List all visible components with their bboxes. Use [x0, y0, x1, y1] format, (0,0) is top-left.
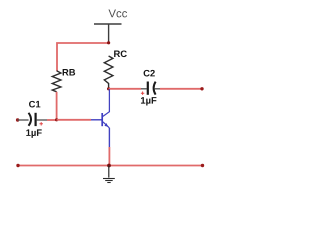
polarity mark + C2: [141, 92, 144, 95]
node output terminal: [200, 87, 203, 90]
wire base node to transistor: [57, 119, 91, 121]
wire RB bottom to base node: [56, 92, 58, 120]
wire ground rail: [18, 165, 203, 167]
net label Vcc: [108, 9, 127, 17]
wire Vcc node to RB top: [57, 43, 109, 71]
resistor RB: [52, 71, 61, 92]
capacitor C2: [141, 82, 160, 95]
resistor RC: [104, 56, 113, 89]
wire Vcc stem: [108, 24, 110, 43]
transistor Q1: [91, 89, 109, 147]
node rail left terminal: [16, 164, 19, 167]
wire collector node to C2: [109, 88, 141, 90]
wire emitter to ground rail: [108, 147, 110, 166]
node emitter junction: [107, 164, 111, 168]
capacitor C1: [18, 113, 47, 126]
node Vcc junction: [107, 41, 110, 44]
ground: [103, 166, 115, 183]
power symbol Vcc bar: [94, 23, 122, 25]
node input terminal: [16, 118, 19, 121]
wire C1 to base node: [47, 119, 57, 121]
node collector junction: [107, 87, 110, 90]
label C2: [144, 70, 155, 77]
label RB: [63, 69, 76, 75]
value label 1uF C2: [141, 97, 156, 105]
node base junction: [55, 118, 58, 121]
wire C2 to output terminal: [160, 88, 202, 90]
label C1: [29, 101, 40, 108]
value label 1uF C1: [26, 129, 41, 137]
node rail right terminal: [201, 164, 204, 167]
label RC: [114, 50, 127, 57]
polarity mark + C1: [40, 122, 43, 125]
